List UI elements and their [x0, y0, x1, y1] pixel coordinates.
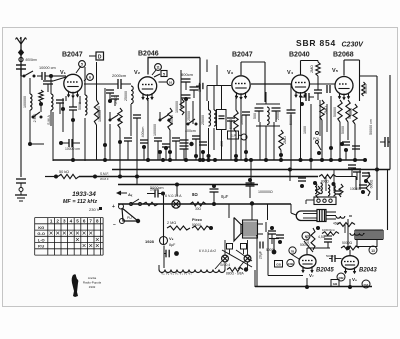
- resistor 800 in bus: [319, 175, 336, 179]
- svg-text:S.M.F.: S.M.F.: [100, 172, 109, 176]
- drop wires to buses: [104, 145, 106, 160]
- wire V5 plate up: [343, 60, 345, 76]
- svg-text:−: −: [113, 222, 116, 228]
- svg-text:×: ×: [69, 229, 73, 238]
- vertical wire x359: [359, 60, 361, 101]
- wire V1 plate to cap: [84, 83, 110, 85]
- svg-text:+: +: [112, 204, 115, 210]
- mid-right verticals: [310, 104, 312, 160]
- box GB small: [331, 280, 339, 287]
- svg-text:1000: 1000: [303, 126, 307, 134]
- svg-text:W.M.F: W.M.F: [100, 177, 109, 181]
- svg-text:100000: 100000: [23, 96, 27, 108]
- wire down x229: [228, 204, 230, 218]
- svg-text:2MΩ: 2MΩ: [283, 136, 287, 144]
- bus wire y176 main: [79, 176, 318, 178]
- svg-text:G-O: G-O: [37, 231, 45, 236]
- svg-text:8: 8: [96, 219, 99, 224]
- coil right of bulb: [336, 216, 345, 218]
- svg-text:V₁: V₁: [60, 70, 67, 76]
- wire to V1 grid cap: [51, 75, 60, 77]
- vertical x291 branch: [290, 84, 292, 110]
- capacitor V1 cathode: [69, 106, 77, 108]
- svg-text:8Ω: 8Ω: [192, 192, 198, 197]
- svg-text:1933-34: 1933-34: [72, 191, 96, 198]
- resistor x120: [118, 108, 122, 128]
- terminal box D: [96, 52, 104, 60]
- left antenna column wire: [20, 76, 22, 177]
- svg-text:500: 500: [253, 113, 257, 119]
- bulb base: [317, 210, 326, 222]
- svg-text:230 V: 230 V: [89, 207, 100, 212]
- svg-text:100000cm: 100000cm: [322, 228, 336, 232]
- svg-text:×: ×: [82, 229, 86, 238]
- IF transformer V2-V3: [216, 65, 218, 86]
- svg-text:50000: 50000: [170, 115, 174, 125]
- vertical x267 down: [250, 201, 254, 205]
- svg-text:2: 2: [56, 219, 59, 224]
- svg-text:B2047: B2047: [62, 52, 83, 59]
- svg-text:×: ×: [89, 241, 93, 250]
- svg-text:10000: 10000: [350, 187, 359, 191]
- svg-text:450Ω: 450Ω: [306, 234, 310, 243]
- tube V7 B2045: [299, 255, 316, 269]
- svg-text:Aₓ: Aₓ: [128, 192, 133, 197]
- svg-text:P.U: P.U: [38, 244, 44, 249]
- svg-text:50000: 50000: [364, 84, 368, 94]
- coil 25000 grid V2: [131, 86, 133, 104]
- stub vertical x207: [206, 60, 208, 73]
- capacitor row under: [124, 137, 132, 139]
- svg-text:C230V: C230V: [342, 42, 365, 49]
- svg-text:L-O: L-O: [38, 237, 45, 242]
- svg-text:Ancita: Ancita: [88, 276, 97, 280]
- svg-text:50000: 50000: [192, 223, 201, 227]
- svg-text:13: 13: [371, 249, 375, 253]
- capacitors near transformer: [268, 230, 276, 232]
- plug box left: [227, 244, 233, 250]
- svg-text:5000Ω: 5000Ω: [342, 241, 353, 245]
- svg-text:S.M.A: S.M.A: [47, 115, 51, 125]
- pin circle 6: [87, 74, 94, 81]
- svg-text:V₂: V₂: [134, 70, 141, 76]
- bottom bus wire: [255, 286, 372, 288]
- tube V6 B2043: [342, 256, 359, 270]
- wire heater ends: [158, 265, 160, 270]
- pilot lamp wires up: [224, 240, 226, 255]
- top bus wire: [148, 57, 201, 59]
- svg-text:5000cm: 5000cm: [150, 186, 164, 190]
- resistor column x96: [94, 100, 98, 125]
- circle 13: [369, 246, 377, 254]
- circle terminal N: [302, 232, 310, 240]
- capacitor 100000 row: [246, 182, 255, 184]
- resistor row x337 y224: [337, 223, 355, 227]
- svg-text:Piezo: Piezo: [192, 218, 203, 222]
- speaker: [234, 218, 241, 242]
- capacitor left bottom: [16, 178, 26, 180]
- plug box right: [241, 244, 247, 250]
- svg-text:600Ω: 600Ω: [370, 179, 374, 188]
- vertical x268 down: [265, 222, 267, 232]
- wire mains row: [118, 203, 291, 205]
- svg-text:5: 5: [163, 72, 165, 76]
- capacitor coupling V4: [314, 89, 322, 91]
- svg-text:400cm: 400cm: [185, 129, 196, 133]
- svg-text:5: 5: [76, 219, 79, 224]
- diagonal wire: [222, 250, 252, 267]
- vertical x257: [256, 235, 258, 287]
- capacitor link: [326, 85, 328, 93]
- svg-text:1932: 1932: [89, 285, 96, 289]
- pilot lamp right: [244, 255, 251, 262]
- svg-text:V₇: V₇: [309, 273, 314, 278]
- circle PU small: [241, 134, 247, 140]
- wire V2 plate to top bus: [147, 58, 149, 75]
- output tube wires: [306, 248, 308, 254]
- svg-text:B2047: B2047: [232, 52, 253, 59]
- svg-text:10B: 10B: [288, 262, 293, 266]
- coil L1 aerial: [29, 78, 31, 94]
- capacitor into x207: [199, 83, 201, 89]
- svg-text:×: ×: [49, 229, 53, 238]
- svg-text:V₄: V₄: [287, 70, 294, 76]
- svg-text:100000: 100000: [153, 124, 157, 136]
- trimmer box: [217, 110, 227, 130]
- svg-text:MF = 112 kHz: MF = 112 kHz: [63, 199, 98, 205]
- capacitor x260 row: [259, 242, 261, 249]
- antenna: [20, 44, 22, 76]
- svg-text:×: ×: [89, 229, 93, 238]
- svg-text:×: ×: [56, 229, 60, 238]
- switch x188: [187, 123, 190, 126]
- svg-text:2MΩ: 2MΩ: [310, 65, 314, 73]
- svg-text:800cm: 800cm: [181, 72, 194, 77]
- svg-text:SBR 854: SBR 854: [296, 38, 336, 48]
- capacitor pair x184: [180, 139, 189, 141]
- svg-text:6: 6: [89, 76, 91, 80]
- svg-text:B2043: B2043: [359, 268, 377, 274]
- resistor x318 drop: [316, 186, 320, 198]
- svg-text:8µF: 8µF: [221, 194, 229, 199]
- resistor 50000 x362: [362, 82, 366, 96]
- wire V4 cathode: [300, 94, 302, 161]
- ground symbol: [19, 188, 23, 192]
- svg-text:11: 11: [156, 66, 160, 70]
- wire V3 plate top: [240, 62, 242, 75]
- svg-text:1928: 1928: [145, 239, 155, 244]
- output tube cathode wires: [306, 278, 308, 287]
- svg-text:KG: KG: [38, 225, 44, 230]
- svg-text:30Ω: 30Ω: [195, 207, 202, 211]
- arrestor diamond: [19, 50, 24, 56]
- svg-text:5000: 5000: [341, 126, 345, 134]
- right vertical wire low: [389, 142, 391, 170]
- resistor 100000cm row: [316, 226, 320, 230]
- svg-text:PU: PU: [127, 216, 132, 220]
- wire bulb to V6: [349, 215, 352, 217]
- wire V3 cathode down: [240, 99, 242, 160]
- svg-text:6 V-0,1 A×2: 6 V-0,1 A×2: [199, 249, 216, 253]
- resistor 2MO under IF: [279, 130, 283, 150]
- svg-text:8µF: 8µF: [169, 243, 176, 247]
- coil columns above strip: [315, 183, 317, 194]
- transformer leads: [258, 223, 263, 225]
- svg-text:5000Ω: 5000Ω: [300, 243, 310, 247]
- svg-text:10000 cm: 10000 cm: [39, 66, 56, 70]
- IF coil column 2: [214, 110, 216, 126]
- output transformer: [243, 220, 258, 238]
- svg-text:50000 cm: 50000 cm: [369, 119, 373, 135]
- svg-text:50000: 50000: [289, 115, 293, 125]
- box GB left: [275, 261, 283, 268]
- vertical wire x181: [180, 70, 182, 79]
- wire V4-V5 grid link: [310, 83, 335, 85]
- svg-text:Radio-Popola: Radio-Popola: [83, 281, 102, 285]
- barretter bulb: [296, 211, 317, 221]
- capacitor below V8: [165, 250, 167, 258]
- capacitor bottom right pair: [324, 238, 332, 240]
- IF coil column 1: [209, 110, 211, 126]
- resistor x341 drop: [339, 184, 343, 197]
- pin circle 7B: [289, 247, 296, 254]
- capacitor cluster right x360: [353, 168, 361, 170]
- junction dot: [61, 107, 65, 111]
- tube V3 B2047: [232, 76, 250, 94]
- svg-text:6: 6: [83, 219, 86, 224]
- heater resistance wire: [159, 270, 225, 273]
- stamp figure: [72, 274, 79, 297]
- bus wire y169: [112, 169, 390, 171]
- vertical x268 L wire: [267, 232, 269, 276]
- vertical wire x265: [264, 62, 266, 102]
- svg-text:B2040: B2040: [289, 52, 310, 59]
- svg-text:10: 10: [169, 81, 173, 85]
- switch S1: [23, 75, 26, 78]
- svg-text:3: 3: [63, 219, 66, 224]
- svg-text:×: ×: [75, 235, 79, 244]
- coil small bottom right: [350, 233, 364, 235]
- svg-text:2000: 2000: [276, 112, 280, 120]
- resistor 600 right: [366, 172, 370, 196]
- svg-text:50000: 50000: [333, 107, 337, 117]
- resistor 1MO under V4: [320, 100, 324, 120]
- svg-text:×: ×: [95, 241, 99, 250]
- wire V4 plate up: [300, 61, 302, 75]
- tube V1 pin wires: [65, 96, 67, 101]
- vertical wire x202 from top bus: [199, 58, 201, 161]
- capacitor x137: [133, 114, 141, 116]
- svg-text:V₈: V₈: [169, 236, 174, 241]
- wire x291 down to bulb: [290, 204, 292, 213]
- bus junction dots: [135, 175, 139, 179]
- tube V2 B2046: [138, 77, 156, 95]
- triangle pickup: [122, 208, 138, 221]
- wires from strip: [306, 199, 314, 201]
- svg-text:7: 7: [89, 219, 92, 224]
- arrestor circle: [19, 57, 23, 61]
- switch position table: [35, 218, 103, 256]
- svg-text:6 V-0.15 A: 6 V-0.15 A: [165, 194, 182, 198]
- tube V5 B2068: [335, 77, 353, 95]
- switch box GP: [228, 131, 239, 139]
- bus wire y160: [53, 159, 365, 161]
- svg-text:×: ×: [62, 229, 66, 238]
- bus wire y184: [118, 184, 258, 186]
- vertical wire x163: [163, 194, 165, 246]
- svg-text:500cm: 500cm: [326, 254, 336, 258]
- svg-text:25000: 25000: [187, 111, 191, 121]
- components under V3: [234, 110, 238, 132]
- svg-text:1: 1: [50, 219, 53, 224]
- svg-text:800Ω: 800Ω: [321, 180, 329, 184]
- bus wire y176 left stub: [45, 176, 56, 178]
- pilot lamp left: [222, 255, 229, 262]
- switch mains: [130, 203, 133, 206]
- svg-text:4: 4: [70, 219, 73, 224]
- switch under coil: [109, 119, 112, 122]
- svg-text:V₆ V₄ V₃ V₅ V₁ V₂ V₇: V₆ V₄ V₃ V₅ V₁ V₂ V₇: [161, 272, 192, 276]
- svg-text:V₅: V₅: [332, 68, 339, 74]
- resistor x355 mid: [353, 104, 357, 124]
- wire V2 cathode down: [147, 100, 149, 160]
- IF can right of V3: [255, 107, 264, 109]
- pin circle 5: [79, 61, 86, 68]
- svg-text:D: D: [98, 55, 102, 61]
- pin box 5: [161, 71, 167, 77]
- svg-text:50000: 50000: [348, 109, 352, 119]
- svg-text:400cm: 400cm: [141, 127, 145, 138]
- svg-text:7B: 7B: [291, 250, 295, 254]
- svg-text:2 MΩ: 2 MΩ: [167, 221, 176, 225]
- svg-text:6000cm: 6000cm: [26, 58, 38, 62]
- vertical link x290: [289, 170, 291, 182]
- resistor R1: [39, 90, 43, 102]
- capacitor grid small: [305, 93, 307, 101]
- vertical wire x105: [104, 88, 106, 161]
- T terminal: [269, 238, 279, 240]
- svg-text:100000: 100000: [175, 101, 179, 113]
- choke hatch block: [355, 230, 383, 240]
- vertical x356 feed: [355, 177, 357, 191]
- vertical x360 feed: [359, 170, 361, 191]
- vertical feeds x326 x334: [325, 177, 327, 192]
- capacitor on bus: [348, 164, 356, 166]
- grid capacitor V1: [43, 80, 53, 82]
- right border vertical wire: [389, 75, 391, 142]
- cluster under V2: [159, 119, 162, 122]
- right long vertical: [387, 170, 389, 231]
- svg-text:5 MΩ: 5 MΩ: [114, 95, 118, 104]
- capacitor pair left of V2: [106, 89, 114, 91]
- svg-text:5: 5: [81, 63, 83, 67]
- tube V4 B2040: [292, 75, 310, 93]
- svg-text:V₃: V₃: [227, 70, 234, 76]
- capacitor x337 small: [335, 190, 342, 192]
- svg-text:25000: 25000: [124, 91, 128, 101]
- capacitor under V1 grid: [56, 99, 64, 101]
- capacitor pair mid-right: [342, 141, 350, 143]
- svg-text:20µF: 20µF: [259, 250, 263, 259]
- pin circle 10B: [287, 259, 294, 266]
- switch S2: [32, 116, 35, 119]
- svg-text:25000: 25000: [201, 115, 205, 125]
- capacitor 8uF row: [210, 188, 219, 190]
- bulb leads right: [326, 211, 336, 213]
- resistors under V5: [338, 100, 342, 122]
- vertical link x251: [250, 160, 252, 185]
- svg-text:880Ω - 6/8A: 880Ω - 6/8A: [226, 272, 244, 276]
- resistor 2MO plate V4: [316, 62, 320, 76]
- coil anode V1: [85, 95, 87, 115]
- pin circle 10: [167, 79, 174, 86]
- capacitor antenna series: [16, 64, 26, 66]
- svg-text:×: ×: [82, 241, 86, 250]
- resistor x182 column: [180, 99, 184, 115]
- svg-text:400: 400: [220, 141, 224, 147]
- svg-text:B2068: B2068: [333, 52, 354, 59]
- svg-text:100000Ω: 100000Ω: [258, 190, 273, 194]
- vertical link x137: [136, 160, 138, 185]
- vertical wire x377: [376, 76, 378, 200]
- svg-text:B2046: B2046: [138, 51, 159, 58]
- terminal strip above bulb: [314, 197, 336, 205]
- svg-text:B2045: B2045: [316, 268, 334, 274]
- wire right to x377: [360, 75, 378, 77]
- wire V3 to V4 grid: [251, 83, 291, 85]
- tube V1 B2047: [64, 74, 82, 92]
- vertical x345 to bulb zone: [344, 224, 346, 233]
- svg-text:10000: 10000: [240, 115, 244, 125]
- fuse squiggle: [143, 202, 158, 206]
- svg-text:100000: 100000: [98, 110, 102, 122]
- svg-text:50 kΩ: 50 kΩ: [59, 170, 69, 174]
- coil L2: [51, 94, 53, 110]
- capacitor below bus x302: [298, 177, 306, 179]
- pin circle 11: [155, 64, 162, 71]
- choke core box: [357, 240, 377, 247]
- resistor 880 heater: [227, 268, 243, 272]
- svg-text:2000cm: 2000cm: [112, 73, 127, 78]
- pin circle 20B: [337, 273, 345, 281]
- pin circle 20A: [362, 280, 370, 288]
- svg-text:V₆: V₆: [352, 277, 357, 282]
